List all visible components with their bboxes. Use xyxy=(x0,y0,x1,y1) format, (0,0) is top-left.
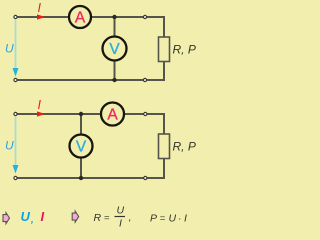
svg-text:I: I xyxy=(119,218,122,230)
terminal top-left xyxy=(14,15,17,18)
terminal bottom-right xyxy=(144,176,147,179)
current arrow I xyxy=(37,14,45,19)
wire top right corner xyxy=(146,114,164,134)
voltmeter U3 xyxy=(70,135,93,158)
svg-text:U: U xyxy=(169,213,177,225)
svg-text:A: A xyxy=(107,107,118,124)
wire top segment left xyxy=(16,16,70,18)
svg-text:·: · xyxy=(178,213,182,225)
svg-text:R: R xyxy=(94,212,102,224)
voltage arrow U xyxy=(15,20,17,70)
wire top right corner xyxy=(145,17,164,37)
svg-text:R, P: R, P xyxy=(173,140,196,154)
svg-text:,: , xyxy=(128,213,131,224)
node junction top xyxy=(79,112,83,116)
arrow icon 2 xyxy=(72,211,79,222)
wire top segment right xyxy=(124,113,147,115)
ammeter U1 xyxy=(69,6,91,28)
voltmeter U2 xyxy=(103,37,127,61)
terminal bottom-right xyxy=(143,78,146,81)
arrow icon 1 xyxy=(3,213,10,224)
terminal top-left xyxy=(14,112,17,115)
svg-text:V: V xyxy=(76,139,87,156)
svg-text:V: V xyxy=(109,41,120,58)
wire bottom segment xyxy=(16,79,146,81)
svg-text:A: A xyxy=(75,10,86,27)
svg-text:U: U xyxy=(5,42,14,56)
svg-text:=: = xyxy=(160,213,166,224)
resistor R xyxy=(159,134,170,159)
wire bottom segment xyxy=(16,177,147,179)
wire voltmeter branch lower xyxy=(114,60,116,80)
wire voltmeter branch upper xyxy=(80,114,82,135)
node junction top xyxy=(112,15,116,19)
svg-text:U: U xyxy=(21,209,31,224)
svg-text:P: P xyxy=(150,213,157,225)
fraction bar xyxy=(115,216,126,218)
wire voltmeter branch upper xyxy=(114,17,116,37)
svg-text:I: I xyxy=(184,213,187,225)
terminal top-right xyxy=(144,112,147,115)
svg-text:R, P: R, P xyxy=(173,43,196,57)
wire right lower xyxy=(145,62,164,81)
svg-text:I: I xyxy=(38,98,42,112)
svg-text:I: I xyxy=(38,1,42,15)
terminal bottom-left xyxy=(14,78,17,81)
svg-text:U: U xyxy=(117,205,125,217)
terminal bottom-left xyxy=(14,176,17,179)
node junction bottom xyxy=(112,78,116,82)
svg-text:,: , xyxy=(30,215,34,226)
svg-text:U: U xyxy=(5,139,14,153)
node junction bottom xyxy=(79,176,83,180)
terminal top-right xyxy=(143,15,146,18)
resistor R xyxy=(159,37,170,62)
current arrow I xyxy=(37,111,45,116)
wire voltmeter branch lower xyxy=(80,157,82,178)
ammeter U4 xyxy=(101,103,124,126)
svg-text:=: = xyxy=(104,212,110,223)
svg-text:I: I xyxy=(41,209,45,224)
wire top segment left xyxy=(16,113,102,115)
wire right lower xyxy=(146,159,164,179)
voltage arrow U xyxy=(15,117,17,167)
wire top segment middle xyxy=(91,16,146,18)
